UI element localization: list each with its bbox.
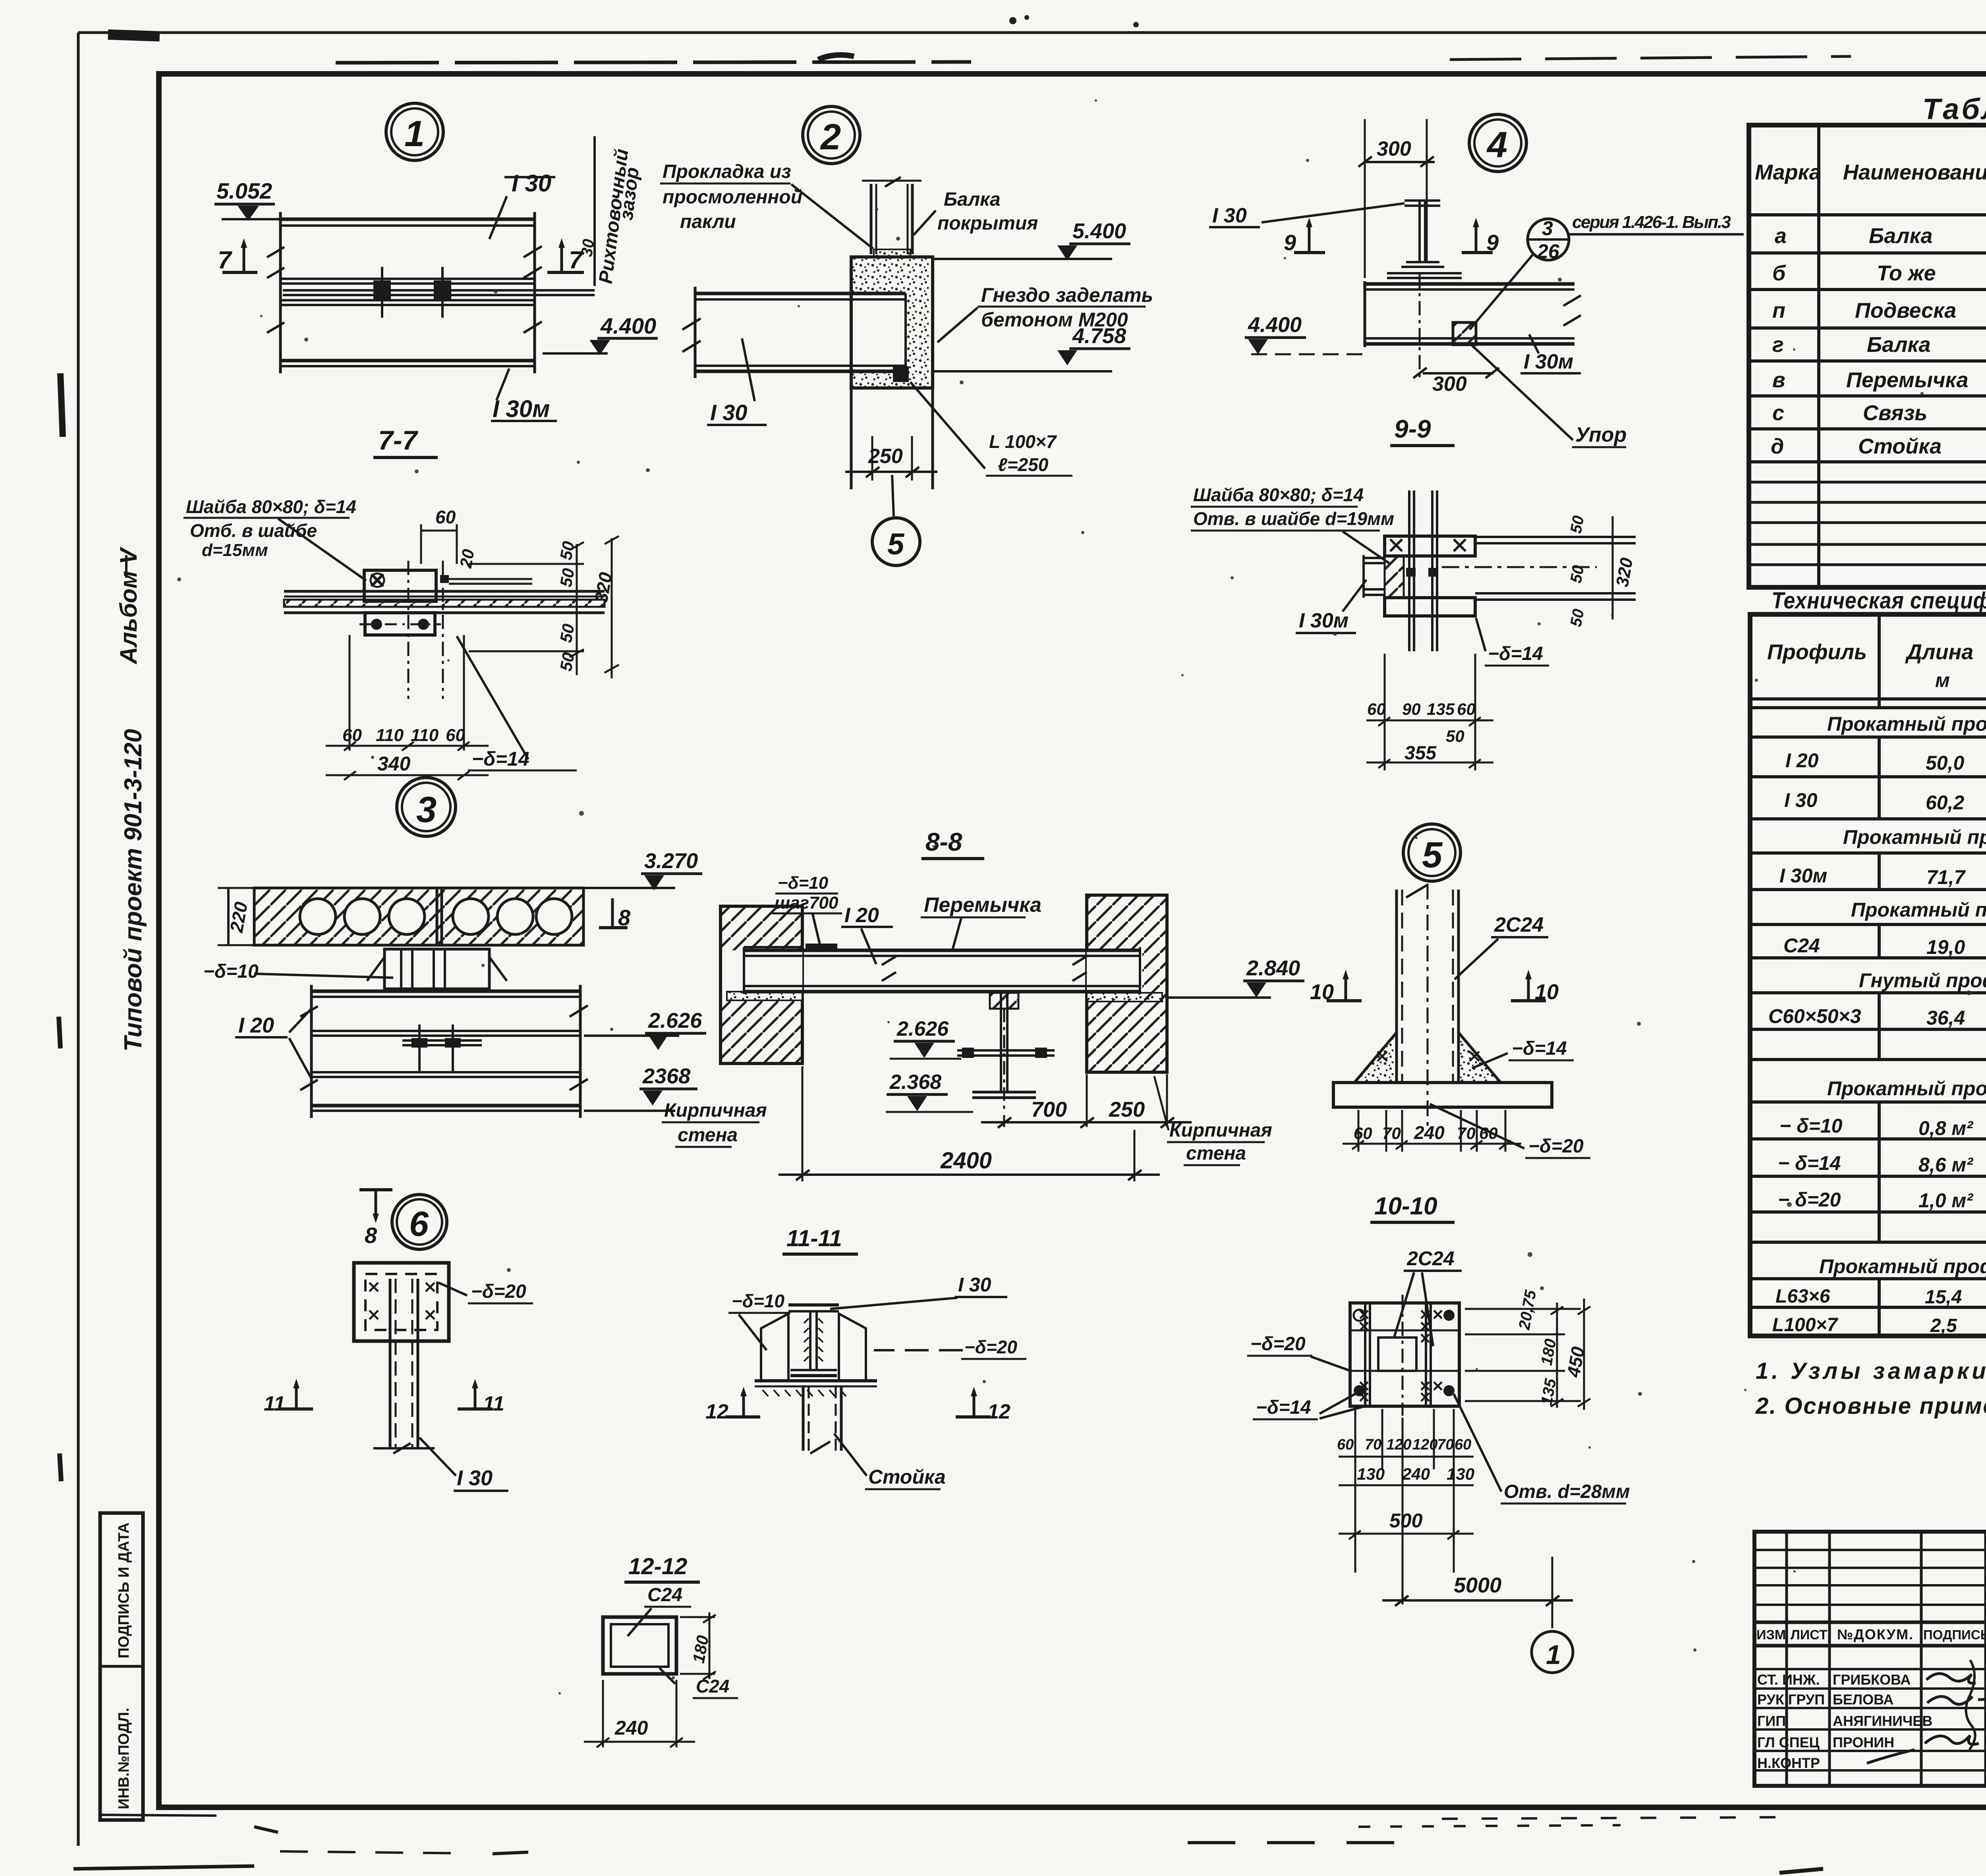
svg-text:Стойка: Стойка xyxy=(1858,434,1942,458)
svg-text:−δ=20: −δ=20 xyxy=(1528,1136,1584,1157)
svg-text:Прокатный профиль- двутавры: Прокатный профиль- двутавры по ГОСТ 8239… xyxy=(1827,713,1986,735)
svg-text:ГРИБКОВА: ГРИБКОВА xyxy=(1833,1671,1911,1688)
svg-text:I 30м: I 30м xyxy=(493,396,550,422)
svg-text:50: 50 xyxy=(1567,608,1588,628)
lower beam I30M xyxy=(280,304,535,306)
svg-text:−δ=20: −δ=20 xyxy=(471,1281,526,1302)
svg-text:I 30м: I 30м xyxy=(1779,865,1827,887)
dim 300 bottom xyxy=(1423,372,1493,374)
svg-text:Отв. в шайбе d=19мм: Отв. в шайбе d=19мм xyxy=(1193,508,1394,529)
signature squiggles xyxy=(1926,1673,1976,1683)
break marks xyxy=(267,247,284,278)
svg-text:60: 60 xyxy=(1479,1124,1498,1143)
svg-text:135: 135 xyxy=(1427,700,1455,718)
svg-text:70: 70 xyxy=(1382,1124,1401,1143)
svg-text:Прокатный профиль- уголки: Прокатный профиль- уголки равнобокие по … xyxy=(1819,1255,1986,1278)
svg-text:Балка: Балка xyxy=(1869,224,1933,248)
svg-text:1. Узлы замаркированы на: 1. Узлы замаркированы на листе КМ-3. xyxy=(1756,1358,1986,1384)
svg-text:250: 250 xyxy=(868,445,903,468)
svg-text:L 100×7: L 100×7 xyxy=(989,431,1057,452)
svg-text:1,0 м²: 1,0 м² xyxy=(1918,1189,1973,1212)
svg-text:11: 11 xyxy=(483,1392,504,1415)
svg-text:Перемычка: Перемычка xyxy=(1846,368,1969,392)
svg-text:50: 50 xyxy=(556,622,578,644)
svg-text:в: в xyxy=(1772,368,1785,392)
svg-text:I 30м: I 30м xyxy=(1299,609,1348,632)
svg-text:серия 1.426-1. Вып.3: серия 1.426-1. Вып.3 xyxy=(1572,212,1731,232)
svg-text:2.840: 2.840 xyxy=(1246,956,1300,980)
column xyxy=(802,1386,805,1451)
svg-text:11: 11 xyxy=(264,1392,285,1415)
bracket under slab xyxy=(384,949,489,989)
svg-text:1: 1 xyxy=(1546,1640,1561,1670)
svg-text:стена: стена xyxy=(678,1125,738,1146)
svg-text:130: 130 xyxy=(1447,1465,1474,1483)
svg-text:Стойка: Стойка xyxy=(868,1466,946,1488)
weld x marks xyxy=(1360,1310,1442,1401)
bottom dims xyxy=(1358,1110,1360,1152)
svg-text:−δ=14: −δ=14 xyxy=(1512,1038,1567,1059)
svg-text:12-12: 12-12 xyxy=(628,1554,687,1579)
svg-text:− δ=14: − δ=14 xyxy=(1778,1152,1841,1174)
I30 rail section xyxy=(1404,201,1440,206)
svg-text:С24: С24 xyxy=(647,1585,682,1606)
svg-text:8,6 м²: 8,6 м² xyxy=(1918,1154,1973,1176)
angle seat xyxy=(893,366,909,382)
svg-text:С24: С24 xyxy=(1783,934,1820,957)
svg-text:4.758: 4.758 xyxy=(1072,324,1126,348)
right rotated dims xyxy=(469,563,584,565)
svg-text:50,0: 50,0 xyxy=(1926,752,1965,774)
svg-text:10-10: 10-10 xyxy=(1374,1193,1437,1220)
svg-text:70: 70 xyxy=(1365,1436,1381,1453)
svg-text:60,2: 60,2 xyxy=(1926,791,1965,814)
svg-text:− δ=20: − δ=20 xyxy=(1778,1189,1841,1211)
svg-text:ПОДПИСЬ: ПОДПИСЬ xyxy=(1923,1627,1986,1642)
anchor box xyxy=(354,1263,449,1341)
svg-text:а: а xyxy=(1775,224,1787,248)
lower plate xyxy=(365,613,435,635)
I30M beam stub left xyxy=(1364,557,1385,559)
svg-text:Связь: Связь xyxy=(1863,401,1927,425)
svg-text:Балка: Балка xyxy=(1867,333,1931,357)
node circle 1 xyxy=(386,103,443,160)
wall below xyxy=(850,388,853,489)
right brick wall xyxy=(1087,895,1167,1072)
svg-text:I 20: I 20 xyxy=(238,1013,274,1037)
svg-text:Гнездо заделать: Гнездо заделать xyxy=(981,284,1153,306)
svg-text:БЕЛОВА: БЕЛОВА xyxy=(1833,1691,1893,1708)
twin channel section xyxy=(603,1617,676,1674)
svg-text:с: с xyxy=(1772,401,1784,425)
svg-text:ГЛ СПЕЦ: ГЛ СПЕЦ xyxy=(1757,1734,1820,1751)
svg-text:320: 320 xyxy=(1613,556,1637,588)
svg-text:250: 250 xyxy=(1109,1098,1145,1121)
svg-text:Отб. в шайбе: Отб. в шайбе xyxy=(190,520,317,541)
svg-text:Профиль: Профиль xyxy=(1767,640,1867,664)
svg-text:36,4: 36,4 xyxy=(1926,1007,1965,1029)
svg-text:−δ=10: −δ=10 xyxy=(203,961,259,982)
svg-text:СТ. ИНЖ.: СТ. ИНЖ. xyxy=(1757,1671,1820,1688)
svg-text:−δ=10: −δ=10 xyxy=(732,1291,784,1311)
svg-text:d=15мм: d=15мм xyxy=(202,540,268,560)
svg-text:240: 240 xyxy=(614,1717,648,1739)
svg-text:I 30м: I 30м xyxy=(1524,350,1573,373)
clamp plates xyxy=(1387,272,1462,274)
svg-text:покрытия: покрытия xyxy=(937,213,1038,234)
svg-text:стена: стена xyxy=(1186,1143,1246,1164)
svg-text:500: 500 xyxy=(1389,1509,1423,1532)
svg-text:Отв. d=28мм: Отв. d=28мм xyxy=(1504,1481,1630,1502)
svg-text:L63×6: L63×6 xyxy=(1775,1286,1830,1307)
svg-text:L100×7: L100×7 xyxy=(1772,1314,1838,1336)
svg-text:3.270: 3.270 xyxy=(644,849,698,873)
concrete pocket block xyxy=(851,257,933,388)
bearing pads xyxy=(727,992,802,1000)
svg-text:60: 60 xyxy=(1354,1124,1372,1143)
svg-text:60: 60 xyxy=(1337,1436,1354,1453)
row lines xyxy=(1749,251,1986,255)
lower plate xyxy=(1385,598,1475,616)
svg-text:I 20: I 20 xyxy=(844,904,879,927)
inventory stamp box xyxy=(100,1513,143,1820)
svg-text:2: 2 xyxy=(820,117,841,157)
svg-text:5: 5 xyxy=(1422,835,1443,875)
joint plates + bolts xyxy=(402,1039,482,1042)
base plate xyxy=(1333,1083,1552,1107)
svg-text:20,75: 20,75 xyxy=(1515,1289,1540,1332)
svg-text:9-9: 9-9 xyxy=(1394,415,1431,443)
svg-text:700: 700 xyxy=(1031,1098,1067,1121)
left brick wall xyxy=(721,906,802,1063)
stop block xyxy=(1453,322,1476,345)
svg-text:50: 50 xyxy=(1446,727,1464,745)
svg-text:12: 12 xyxy=(987,1400,1010,1423)
svg-text:8-8: 8-8 xyxy=(925,828,962,856)
svg-text:30: 30 xyxy=(578,238,597,258)
svg-text:340: 340 xyxy=(377,753,411,775)
hollow-core slab xyxy=(254,888,583,945)
svg-text:РУК.ГРУП: РУК.ГРУП xyxy=(1757,1691,1825,1708)
svg-text:355: 355 xyxy=(1404,743,1437,764)
svg-text:Прокатный профиль двутавры: Прокатный профиль двутавры по ГОСТ 19425… xyxy=(1843,826,1986,848)
centerline xyxy=(1419,274,1421,381)
svg-text:Подвеска: Подвеска xyxy=(1855,299,1956,322)
svg-text:7-7: 7-7 xyxy=(378,425,418,455)
svg-text:8: 8 xyxy=(618,905,631,930)
svg-text:−δ=14: −δ=14 xyxy=(1256,1397,1311,1418)
centerlines xyxy=(408,561,410,699)
svg-text:−δ=10: −δ=10 xyxy=(778,873,829,893)
svg-text:Альбом V: Альбом V xyxy=(115,546,142,665)
svg-text:Типовой проект 901-3-120: Типовой проект 901-3-120 xyxy=(120,729,147,1052)
dim 5000 to axis 1 xyxy=(1551,1557,1553,1628)
svg-text:ПОДПИСЬ И ДАТА: ПОДПИСЬ И ДАТА xyxy=(116,1523,132,1658)
main beam I30M xyxy=(1365,282,1575,286)
svg-text:просмоленной: просмоленной xyxy=(663,187,802,208)
svg-text:120: 120 xyxy=(1412,1436,1437,1453)
header verticals xyxy=(1879,614,1986,1336)
axis circle 1 xyxy=(1532,1631,1573,1673)
svg-text:Шайба 80×80; δ=14: Шайба 80×80; δ=14 xyxy=(186,496,356,517)
svg-text:5.400: 5.400 xyxy=(1072,219,1126,243)
column xyxy=(389,1279,392,1448)
roof beam column xyxy=(870,184,873,254)
upper I20 beam xyxy=(311,990,580,993)
svg-text:д: д xyxy=(1771,434,1784,458)
svg-text:60: 60 xyxy=(1457,700,1476,718)
end ticks xyxy=(279,212,282,373)
svg-text:90: 90 xyxy=(1402,700,1421,718)
svg-text:I 30: I 30 xyxy=(958,1274,991,1296)
right rotated dims xyxy=(1612,516,1614,620)
verticals xyxy=(1817,125,1820,587)
svg-text:4.400: 4.400 xyxy=(600,313,656,338)
marker circle 3/26 xyxy=(1528,219,1569,260)
svg-text:АНЯГИНИЧЕВ: АНЯГИНИЧЕВ xyxy=(1833,1713,1932,1729)
svg-text:шаг700: шаг700 xyxy=(775,893,838,913)
svg-text:№ДОКУМ.: №ДОКУМ. xyxy=(1837,1626,1914,1642)
bottom dims 700 / 250 xyxy=(1003,1115,1005,1127)
svg-text:70: 70 xyxy=(1437,1436,1454,1453)
svg-text:I 30: I 30 xyxy=(1212,204,1247,227)
strap plate on top left xyxy=(806,944,837,950)
svg-text:4.400: 4.400 xyxy=(1248,313,1302,337)
bottom dim chains xyxy=(1354,1409,1356,1573)
dim 250 xyxy=(871,436,873,481)
svg-text:2.368: 2.368 xyxy=(889,1071,941,1094)
svg-text:Прокладка из: Прокладка из xyxy=(663,161,791,182)
svg-text:15,4: 15,4 xyxy=(1925,1287,1962,1308)
node circle 5 small xyxy=(872,518,920,566)
main horizontal member xyxy=(284,590,605,593)
svg-text:Кирпичная: Кирпичная xyxy=(1169,1120,1272,1141)
svg-text:1: 1 xyxy=(404,114,425,154)
svg-text:−δ=14: −δ=14 xyxy=(1488,643,1543,664)
svg-text:Таблица сечений: Таблица сечений xyxy=(1922,93,1986,125)
svg-text:12: 12 xyxy=(705,1400,728,1423)
svg-text:Шайба 80×80; δ=14: Шайба 80×80; δ=14 xyxy=(1193,484,1364,505)
svg-text:Марка: Марка xyxy=(1755,160,1821,184)
svg-text:50: 50 xyxy=(1567,564,1588,584)
svg-text:60: 60 xyxy=(446,726,465,745)
svg-text:2.626: 2.626 xyxy=(648,1009,702,1033)
svg-text:Прокатный профиль - швеллеры: Прокатный профиль - швеллеры по ГОСТ 824… xyxy=(1851,899,1986,921)
svg-text:220: 220 xyxy=(226,900,251,934)
top washer plate xyxy=(1385,536,1475,556)
svg-text:−δ=20: −δ=20 xyxy=(1250,1334,1306,1355)
svg-text:ИНВ.№ПОДЛ.: ИНВ.№ПОДЛ. xyxy=(116,1708,132,1809)
dim 180 xyxy=(680,1616,715,1618)
svg-text:С60×50×3: С60×50×3 xyxy=(1768,1005,1861,1027)
svg-text:пакли: пакли xyxy=(680,211,736,232)
svg-text:300: 300 xyxy=(1432,372,1467,396)
svg-text:4: 4 xyxy=(1486,125,1507,165)
svg-text:Наименование: Наименование xyxy=(1843,160,1986,184)
svg-text:3: 3 xyxy=(1542,217,1553,239)
bolts xyxy=(373,280,391,299)
righting gap vertical line + rotated text xyxy=(593,136,596,286)
svg-text:−δ=20: −δ=20 xyxy=(964,1337,1017,1357)
svg-text:0,8 м²: 0,8 м² xyxy=(1918,1117,1973,1139)
svg-text:5000: 5000 xyxy=(1454,1573,1501,1597)
side plates xyxy=(761,1314,788,1381)
svg-text:110: 110 xyxy=(411,726,439,745)
node circle 4 xyxy=(1469,114,1526,172)
svg-text:240: 240 xyxy=(1414,1122,1445,1143)
svg-text:2368: 2368 xyxy=(642,1064,690,1088)
svg-text:С24: С24 xyxy=(696,1676,729,1697)
horizontals xyxy=(1750,699,1986,1307)
svg-text:м: м xyxy=(1935,669,1950,691)
svg-text:19,0: 19,0 xyxy=(1926,936,1965,958)
svg-text:120: 120 xyxy=(1386,1436,1411,1453)
section 8 mark bottom xyxy=(359,1188,392,1191)
svg-text:60: 60 xyxy=(342,726,362,745)
beam bottom flange / joint plates xyxy=(280,278,535,280)
svg-text:Длина: Длина xyxy=(1905,640,1973,664)
svg-text:8: 8 xyxy=(365,1223,377,1248)
svg-text:Гнутый профиль- швеллер по: Гнутый профиль- швеллер по ГОСТ 8278-63 xyxy=(1859,969,1986,992)
svg-text:2,5: 2,5 xyxy=(1930,1315,1957,1336)
gasket hatch strip xyxy=(874,249,910,257)
svg-text:2400: 2400 xyxy=(940,1148,992,1173)
break marks on beam xyxy=(882,956,896,981)
leader to circle 5 xyxy=(892,475,894,516)
svg-text:I 30: I 30 xyxy=(1784,789,1818,811)
svg-text:Техническая спецификация с: Техническая спецификация стали ВСт3 пс 6… xyxy=(1772,588,1986,614)
svg-text:50: 50 xyxy=(556,567,578,588)
wire rails through joint xyxy=(283,289,595,291)
svg-text:300: 300 xyxy=(1377,137,1411,160)
svg-text:ЛИСТ: ЛИСТ xyxy=(1791,1627,1828,1642)
svg-text:п: п xyxy=(1772,299,1785,322)
base line xyxy=(755,1379,877,1382)
svg-text:26: 26 xyxy=(1537,240,1560,262)
node circle 5 xyxy=(1403,824,1461,881)
svg-text:70: 70 xyxy=(1457,1124,1476,1143)
dim 2400 xyxy=(802,1066,804,1181)
svg-text:3: 3 xyxy=(416,789,437,830)
svg-text:ИЗМ: ИЗМ xyxy=(1756,1627,1786,1642)
Упор label + leader xyxy=(1472,345,1573,440)
top plate xyxy=(364,570,436,601)
svg-text:I 30: I 30 xyxy=(710,400,747,425)
svg-text:11-11: 11-11 xyxy=(786,1226,842,1251)
svg-text:I 30: I 30 xyxy=(512,170,551,197)
gusset plate xyxy=(1350,1303,1459,1406)
svg-text:б: б xyxy=(1772,261,1786,285)
svg-text:Упор: Упор xyxy=(1575,423,1627,446)
svg-text:7: 7 xyxy=(218,247,232,274)
svg-text:60: 60 xyxy=(435,507,456,527)
svg-text:71,7: 71,7 xyxy=(1926,866,1966,888)
dim 240 xyxy=(602,1680,604,1747)
lintel beam xyxy=(744,946,802,948)
gussets xyxy=(1354,1033,1397,1083)
right dims xyxy=(1465,1308,1581,1310)
svg-text:2С24: 2С24 xyxy=(1406,1247,1455,1270)
svg-text:Балка: Балка xyxy=(944,189,1001,210)
svg-text:2.626: 2.626 xyxy=(896,1017,949,1040)
svg-text:Прокатный профиль- сталь лист: Прокатный профиль- сталь листовая по ГОС… xyxy=(1827,1077,1986,1100)
hanger rods xyxy=(1408,490,1410,651)
svg-text:2. Основные примечания см.: 2. Основные примечания см. на листе КМ-3… xyxy=(1755,1393,1986,1419)
svg-text:110: 110 xyxy=(376,726,404,745)
svg-text:I 30: I 30 xyxy=(457,1466,493,1490)
svg-text:2С24: 2С24 xyxy=(1494,913,1544,936)
beam I30 top chord xyxy=(280,218,535,221)
svg-text:5.052: 5.052 xyxy=(216,178,272,203)
beam I30 horizontal xyxy=(695,292,906,295)
bottom scan marks xyxy=(1188,1841,1418,1844)
scan artifact line top xyxy=(336,62,971,63)
node circle 2 xyxy=(803,106,860,164)
svg-text:ГИП: ГИП xyxy=(1757,1713,1786,1729)
svg-text:ПРОНИН: ПРОНИН xyxy=(1833,1734,1894,1751)
beam lines right xyxy=(1475,536,1636,538)
node circle 3 xyxy=(397,778,456,836)
svg-text:20: 20 xyxy=(456,548,478,569)
svg-text:г: г xyxy=(1772,333,1784,357)
column 2C24 xyxy=(1395,890,1398,1083)
svg-text:−δ=14: −δ=14 xyxy=(472,748,529,770)
svg-text:ℓ=250: ℓ=250 xyxy=(998,454,1049,475)
svg-text:50: 50 xyxy=(556,540,578,561)
svg-text:Кирпичная: Кирпичная xyxy=(664,1100,767,1121)
bottom dims xyxy=(349,635,351,751)
svg-text:I 20: I 20 xyxy=(1785,749,1819,772)
svg-text:− δ=10: − δ=10 xyxy=(1779,1115,1843,1137)
svg-text:5: 5 xyxy=(887,527,905,561)
svg-text:Перемычка: Перемычка xyxy=(924,894,1041,917)
svg-text:60: 60 xyxy=(1367,700,1386,718)
svg-text:60: 60 xyxy=(1455,1436,1471,1453)
bottom dims xyxy=(1384,654,1386,770)
svg-text:240: 240 xyxy=(1402,1465,1430,1483)
svg-text:130: 130 xyxy=(1357,1465,1385,1483)
lower I20 beam xyxy=(311,1071,580,1073)
svg-text:6: 6 xyxy=(409,1204,429,1243)
I30 beam section on column xyxy=(788,1303,839,1307)
hanging I20 under lintel xyxy=(990,993,1018,1009)
svg-text:То же: То же xyxy=(1877,261,1936,285)
svg-text:50: 50 xyxy=(1567,514,1588,535)
outer of left revision table xyxy=(1754,1532,1986,1786)
svg-text:Н.КОНТР: Н.КОНТР xyxy=(1757,1755,1820,1771)
section 8 mark right xyxy=(611,898,614,928)
